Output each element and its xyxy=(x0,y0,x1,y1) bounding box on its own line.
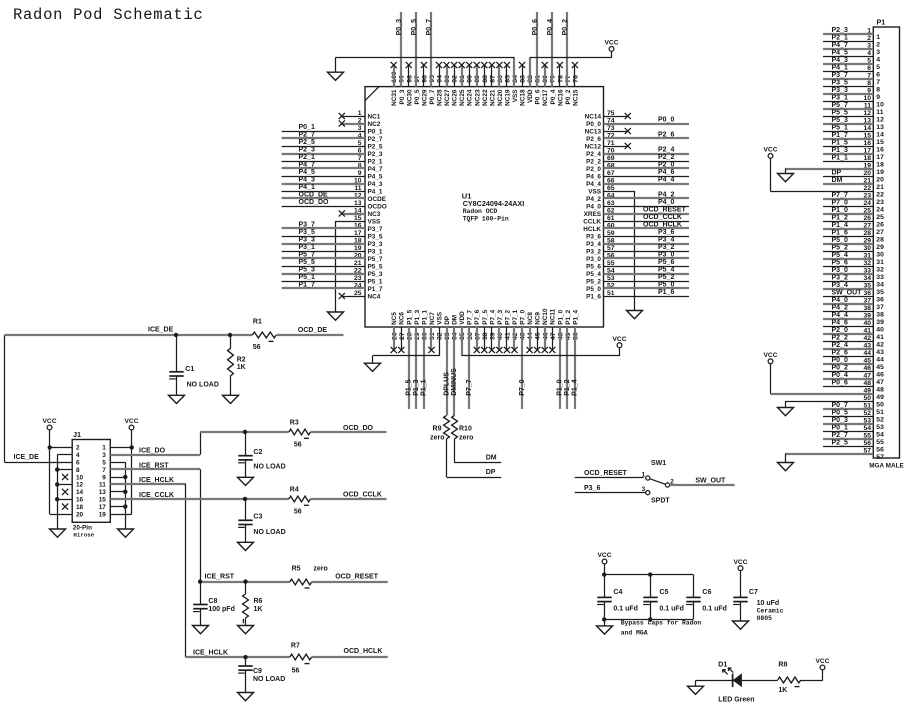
svg-text:P2_4: P2_4 xyxy=(586,151,601,158)
svg-text:34: 34 xyxy=(876,282,884,289)
svg-text:P7_0: P7_0 xyxy=(832,199,848,206)
U1 pin 25 (NC4) no-connect stub + X xyxy=(339,290,381,301)
P1 pin 6 wire + net label P4_1 xyxy=(823,64,880,78)
svg-text:NO LOAD: NO LOAD xyxy=(187,381,219,388)
svg-text:CCLK: CCLK xyxy=(583,218,601,225)
svg-text:P3_0: P3_0 xyxy=(586,256,601,263)
svg-text:56: 56 xyxy=(294,508,302,515)
svg-text:P7_0: P7_0 xyxy=(519,379,526,395)
U1 pin 6 (P2_3) wire + net label P2_3 xyxy=(282,147,383,158)
svg-text:P3_5: P3_5 xyxy=(832,79,848,86)
wire — ICE_DO riser up to OCD_DO row xyxy=(200,432,202,455)
svg-text:P3_3: P3_3 xyxy=(368,241,383,248)
label 1K (R8) xyxy=(778,687,787,694)
svg-text:P5_6: P5_6 xyxy=(586,263,601,270)
svg-text:R8: R8 xyxy=(778,662,787,669)
U1 pin 78 (NC16) no-connect stub + X xyxy=(557,62,565,106)
svg-text:P0_0: P0_0 xyxy=(586,121,601,128)
U1 pin 96 (NC29) no-connect stub + X xyxy=(421,62,429,106)
svg-text:P5_5: P5_5 xyxy=(832,109,848,116)
wire — OCD_RESET to SW1 pin 1 xyxy=(575,477,644,479)
P1 pin 39 wire + net label P4_4 xyxy=(823,312,884,326)
svg-text:P1_4: P1_4 xyxy=(832,222,848,229)
P1 pin 50 wire to ground xyxy=(785,395,884,409)
U1 pin 44 (NC8) no-connect stub + X xyxy=(527,312,535,354)
svg-text:SW_OUT: SW_OUT xyxy=(695,477,726,484)
svg-text:33: 33 xyxy=(876,274,884,281)
svg-text:Hirose: Hirose xyxy=(73,532,94,539)
P1 pin 5 wire + net label P4_3 xyxy=(823,57,880,71)
junction — C5 top xyxy=(648,572,652,576)
svg-text:3: 3 xyxy=(876,49,880,56)
capacitor C1 (NO LOAD) xyxy=(169,335,184,395)
svg-text:P0_0: P0_0 xyxy=(832,357,848,364)
svg-text:R2: R2 xyxy=(237,357,246,364)
U1 pin 14 (NC3) no-connect stub + X xyxy=(339,207,381,218)
P1 pin 38 wire + net label P4_2 xyxy=(823,304,884,318)
P1 reference designator label xyxy=(877,18,886,27)
svg-text:P4_3: P4_3 xyxy=(832,57,848,64)
wire — OCD_DE after R1 xyxy=(276,334,343,336)
svg-text:C7: C7 xyxy=(749,589,758,596)
wire — ground to D1 xyxy=(696,680,733,682)
svg-text:P5_7: P5_7 xyxy=(299,252,315,259)
svg-text:NC15: NC15 xyxy=(572,89,579,106)
J1 pin 8 number xyxy=(76,467,80,474)
U1 pin 81 (P0_6) wire up + net label P0_6 xyxy=(532,12,542,104)
svg-text:P7_0: P7_0 xyxy=(520,309,527,324)
U1 pin 30 (P1_1) wire down + net label P1_1 xyxy=(421,309,429,409)
svg-text:18: 18 xyxy=(876,162,884,169)
svg-text:P2_7: P2_7 xyxy=(299,132,315,139)
svg-text:39: 39 xyxy=(489,332,496,340)
svg-text:NC24: NC24 xyxy=(467,89,474,106)
svg-text:OCD_DO: OCD_DO xyxy=(343,425,374,432)
svg-text:HCLK: HCLK xyxy=(583,226,601,233)
svg-text:NC17: NC17 xyxy=(542,89,549,106)
junction — gnd at J1 pin 17 xyxy=(123,504,127,508)
svg-text:Bypass caps for Radon: Bypass caps for Radon xyxy=(621,620,702,627)
junction — R2 tap on ICE_DE xyxy=(228,333,232,337)
U1 pin 74 (P0_0) wire + net label P0_0 xyxy=(586,117,689,128)
svg-text:VDD: VDD xyxy=(459,311,466,325)
wire — J1 pin 4 stub xyxy=(57,454,72,456)
resistor R6 1K xyxy=(243,582,249,626)
svg-text:P3_2: P3_2 xyxy=(658,244,674,251)
svg-text:1: 1 xyxy=(876,34,880,41)
junction — gnd at J1 pin 13 xyxy=(123,490,127,494)
resistor R9 (zero) on DPLUS xyxy=(444,415,450,438)
svg-text:P0_3: P0_3 xyxy=(832,417,848,424)
wire — ICE_RST riser down xyxy=(200,469,202,581)
svg-text:P4_1: P4_1 xyxy=(299,184,315,191)
U1 pin 55 (P5_6) wire + net label P5_6 xyxy=(586,259,689,270)
svg-text:DP: DP xyxy=(832,169,842,176)
label C2 xyxy=(253,449,262,456)
svg-text:P5_1: P5_1 xyxy=(832,124,848,131)
P1 pin 23 wire + net label P7_7 xyxy=(823,192,884,206)
svg-text:P0_2: P0_2 xyxy=(565,89,572,104)
net label ICE_DE (at J1) xyxy=(14,454,40,461)
P1 pin 2 wire + net label P2_1 xyxy=(823,34,880,48)
svg-text:P2_2: P2_2 xyxy=(586,158,601,165)
svg-text:ICE_HCLK: ICE_HCLK xyxy=(193,649,228,656)
svg-text:P0_6: P0_6 xyxy=(535,89,542,104)
svg-text:P7_3: P7_3 xyxy=(497,309,504,324)
capacitor C9 (NO LOAD) xyxy=(238,657,253,692)
svg-text:VSS: VSS xyxy=(368,218,382,225)
svg-text:NC30: NC30 xyxy=(406,89,413,106)
label LED Green xyxy=(718,696,754,703)
svg-text:P4_4: P4_4 xyxy=(658,177,674,184)
U1 pin 79 (P0_4) wire up + net label P0_4 xyxy=(547,12,557,104)
net label ICE_RST (lower run) xyxy=(205,574,235,581)
U1 pin 68 (P2_0) wire + net label P2_0 xyxy=(586,162,689,173)
mark — R8 tolerance tick xyxy=(795,686,800,688)
svg-text:P1_3: P1_3 xyxy=(414,309,421,324)
svg-text:59: 59 xyxy=(607,230,615,237)
net label ICE_RST (at J1) xyxy=(139,462,169,469)
svg-text:1: 1 xyxy=(642,471,646,478)
wire — J1 pin 1 stub xyxy=(110,447,131,449)
svg-text:P3_6: P3_6 xyxy=(586,233,601,240)
P1 pin 28 wire + net label P1_6 xyxy=(823,229,884,243)
svg-text:P0_4: P0_4 xyxy=(550,89,557,104)
J1 pin 13 number xyxy=(99,489,107,496)
svg-text:15: 15 xyxy=(99,497,107,504)
ground — bottom-left VSS rail xyxy=(365,363,381,371)
svg-text:P2_7: P2_7 xyxy=(832,432,848,439)
junction — C9 tap xyxy=(243,655,247,659)
svg-text:3: 3 xyxy=(102,452,106,459)
U1 pin 97 (P0_5) wire up + net label P0_5 xyxy=(411,12,421,104)
svg-text:22: 22 xyxy=(876,192,884,199)
svg-text:P7_4: P7_4 xyxy=(489,309,496,324)
svg-text:XRES: XRES xyxy=(584,211,602,218)
svg-text:P3_3: P3_3 xyxy=(832,87,848,94)
svg-text:9: 9 xyxy=(102,474,106,481)
svg-text:VSS: VSS xyxy=(512,89,519,103)
U1 pin 42 (P7_1) no-connect stub + X xyxy=(511,309,519,353)
junction — C1 tap on ICE_DE xyxy=(174,333,178,337)
svg-text:NC5: NC5 xyxy=(391,312,398,325)
svg-text:39: 39 xyxy=(876,319,884,326)
label 10 uFd (C7) xyxy=(757,600,780,607)
ground — C7 xyxy=(733,621,749,629)
U1 pin 70 (P2_4) wire + net label P2_4 xyxy=(586,147,689,158)
svg-text:21: 21 xyxy=(354,260,362,267)
J1 pin 18 number xyxy=(76,504,84,511)
wire — J1 pin 17 stub xyxy=(110,506,125,508)
mark — R6 tick xyxy=(242,619,244,623)
label C4 xyxy=(613,589,622,596)
svg-text:67: 67 xyxy=(607,170,615,177)
svg-text:P3_5: P3_5 xyxy=(368,233,383,240)
svg-text:10: 10 xyxy=(876,102,884,109)
svg-text:R1: R1 xyxy=(253,319,262,326)
svg-text:P1_3: P1_3 xyxy=(832,147,848,154)
svg-text:19: 19 xyxy=(876,169,884,176)
U1 pin 94 (NC28) no-connect stub + X xyxy=(436,62,444,106)
P1 pin 54 wire + net label P0_1 xyxy=(823,424,884,438)
U1 pin 3 (P0_1) wire + net label P0_1 xyxy=(282,124,383,135)
svg-text:56: 56 xyxy=(253,344,261,351)
U1 pin 57 (P3_2) wire + net label P3_2 xyxy=(586,244,689,255)
svg-text:P3_1: P3_1 xyxy=(368,248,383,255)
U1 pin 75 (NC14) no-connect stub + X xyxy=(585,110,631,121)
svg-text:76: 76 xyxy=(572,75,579,83)
P1 pin 7 wire + net label P3_7 xyxy=(823,72,880,86)
svg-text:7: 7 xyxy=(102,467,106,474)
junction — VCC at J1 pin 2 xyxy=(48,445,52,449)
net label ICE_HCLK (lower run) xyxy=(193,649,228,656)
U1 pin 5 (P2_5) wire + net label P2_5 xyxy=(282,139,383,150)
P1 pin 11 wire + net label P5_7 xyxy=(823,102,884,116)
svg-text:41: 41 xyxy=(876,334,884,341)
svg-text:P3_6: P3_6 xyxy=(658,229,674,236)
svg-text:P4_0: P4_0 xyxy=(658,199,674,206)
wire — ICE_HCLK riser down xyxy=(185,484,187,658)
svg-text:1K: 1K xyxy=(237,364,246,371)
svg-text:63: 63 xyxy=(607,200,615,207)
svg-text:VCC: VCC xyxy=(764,352,778,359)
svg-text:P3_0: P3_0 xyxy=(832,267,848,274)
ground — C2 xyxy=(238,477,254,485)
svg-text:J1: J1 xyxy=(73,430,81,439)
resistor R7 56 xyxy=(290,654,312,660)
svg-text:53: 53 xyxy=(607,275,615,282)
svg-text:C3: C3 xyxy=(253,514,262,521)
svg-text:DP: DP xyxy=(486,469,496,476)
svg-text:43: 43 xyxy=(876,349,884,356)
svg-text:NC2: NC2 xyxy=(368,121,381,128)
P1 pin 13 wire + net label P5_3 xyxy=(823,117,884,131)
svg-text:P2_3: P2_3 xyxy=(832,27,848,34)
svg-text:P5_4: P5_4 xyxy=(832,252,848,259)
svg-text:77: 77 xyxy=(565,75,572,83)
label 1K (R2) xyxy=(237,364,246,371)
svg-text:zero: zero xyxy=(313,566,327,573)
svg-text:P4_0: P4_0 xyxy=(586,203,601,210)
svg-text:14: 14 xyxy=(876,132,884,139)
svg-text:15: 15 xyxy=(354,215,362,222)
svg-text:35: 35 xyxy=(876,289,884,296)
label R1 xyxy=(253,319,262,326)
svg-text:87: 87 xyxy=(489,75,496,83)
wire — J1 left ground vertical (pins 4,8,12,16) xyxy=(57,455,59,529)
svg-text:99: 99 xyxy=(399,75,406,83)
U1 pin 13 (OCDO) wire + net label OCD_DO xyxy=(282,199,387,210)
U1 pin 56 (P3_0) wire + net label P3_0 xyxy=(586,252,689,263)
svg-text:P0_7: P0_7 xyxy=(832,402,848,409)
label SW1 xyxy=(651,460,666,467)
svg-text:49: 49 xyxy=(876,394,884,401)
svg-text:P7_5: P7_5 xyxy=(482,309,489,324)
VCC symbol — bypass rail xyxy=(598,552,612,564)
P1 pin 16 wire + net label P1_5 xyxy=(823,139,884,153)
label R9 / zero xyxy=(430,426,444,442)
net label ICE_HCLK (at J1) xyxy=(139,477,174,484)
svg-text:P1_1: P1_1 xyxy=(421,309,428,324)
svg-text:DM: DM xyxy=(832,177,843,184)
svg-text:P2_1: P2_1 xyxy=(832,34,848,41)
svg-text:P3_4: P3_4 xyxy=(658,237,674,244)
label R8 xyxy=(778,662,787,669)
U1 pin 47 (NC11) no-connect stub + X xyxy=(549,308,557,353)
svg-text:NO LOAD: NO LOAD xyxy=(253,529,285,536)
svg-text:P3_4: P3_4 xyxy=(832,282,848,289)
mark — R3 tolerance tick xyxy=(304,437,309,439)
J1 pin 3 number xyxy=(102,452,106,459)
svg-text:P5_6: P5_6 xyxy=(832,259,848,266)
svg-text:55: 55 xyxy=(607,260,615,267)
U1 pin 85 (NC19) no-connect stub + X xyxy=(504,62,512,106)
svg-text:1K: 1K xyxy=(778,687,787,694)
svg-text:44: 44 xyxy=(876,357,884,364)
note text and MGA xyxy=(621,630,648,637)
svg-text:NC29: NC29 xyxy=(421,89,428,106)
svg-text:NC14: NC14 xyxy=(585,113,602,120)
svg-text:47: 47 xyxy=(550,332,557,340)
svg-text:VCC: VCC xyxy=(764,147,778,154)
J1 pin 12 number xyxy=(76,482,84,489)
U1 pin 77 (P0_2) wire up + net label P0_2 xyxy=(562,12,572,104)
svg-text:P4_3: P4_3 xyxy=(368,181,383,188)
P1 pin 29 wire + net label P5_0 xyxy=(823,237,884,251)
P1 pin 24 wire + net label P7_0 xyxy=(823,199,884,213)
svg-text:4: 4 xyxy=(876,57,880,64)
label C6 xyxy=(702,589,711,596)
P1 pin 9 wire + net label P3_3 xyxy=(823,87,880,101)
svg-text:VDD: VDD xyxy=(527,89,534,103)
capacitor C7 10 uFd xyxy=(733,571,748,621)
P1 pin 22 wire to VCC xyxy=(770,185,884,199)
svg-text:R5: R5 xyxy=(292,566,301,573)
net label OCD_CCLK xyxy=(343,491,382,498)
junction — R6 tap xyxy=(243,579,247,583)
P1 pin 57 wire to ground xyxy=(785,448,884,462)
svg-text:P1_5: P1_5 xyxy=(406,309,413,324)
net label P3_6 (SW1) xyxy=(584,485,600,492)
J1 pin 10 number xyxy=(76,474,84,481)
VCC symbol — P1 pin 22 xyxy=(764,147,778,192)
U1 pin 19 (P3_1) wire + net label P3_1 xyxy=(282,244,383,255)
svg-text:VCC: VCC xyxy=(598,552,612,559)
svg-text:P1_4: P1_4 xyxy=(572,309,579,324)
U1 pin 29 (P1_3) wire down + net label P1_3 xyxy=(413,309,421,409)
svg-text:OCD_DE: OCD_DE xyxy=(298,327,328,334)
label Ceramic (C7) xyxy=(757,607,784,614)
U1 pin 51 (P1_6) wire + net label P1_6 xyxy=(586,289,689,300)
svg-text:96: 96 xyxy=(421,75,428,83)
svg-text:13: 13 xyxy=(354,200,362,207)
svg-text:42: 42 xyxy=(876,342,884,349)
J1 pin 7 number xyxy=(102,467,106,474)
svg-text:55: 55 xyxy=(876,439,884,446)
U1 pin 4 (P2_7) wire + net label P2_7 xyxy=(282,132,383,143)
note text Bypass caps for Radon xyxy=(621,620,702,627)
svg-text:0.1 uFd: 0.1 uFd xyxy=(659,605,684,612)
capacitor C2 (NO LOAD) xyxy=(238,432,253,477)
capacitor C3 (NO LOAD) xyxy=(238,499,253,542)
U1 pin 32 (VSS) stub down xyxy=(437,311,444,356)
svg-text:38: 38 xyxy=(876,312,884,319)
U1 pin 87 (NC21) no-connect stub + X xyxy=(489,62,497,106)
wire — VSS pin 84 rail to ground (top left) xyxy=(336,57,515,72)
svg-text:69: 69 xyxy=(607,155,615,162)
svg-text:81: 81 xyxy=(535,75,542,83)
label 56 (R1) xyxy=(253,344,261,351)
junction — C8 tap xyxy=(198,579,202,583)
svg-text:P1_0: P1_0 xyxy=(557,379,564,395)
svg-text:56: 56 xyxy=(292,667,300,674)
P1 pin 51 wire + net label P0_7 xyxy=(823,402,884,416)
P1 pin 55 wire + net label P2_7 xyxy=(823,432,884,446)
net label OCD_DO xyxy=(343,425,374,432)
ground — D1 cathode xyxy=(688,680,704,694)
U1 pin 39 (P7_4) no-connect stub + X xyxy=(489,309,497,353)
svg-text:ICE_RST: ICE_RST xyxy=(205,574,235,581)
label C8 xyxy=(208,598,217,605)
junction — gnd at J1 pin 16 xyxy=(55,497,59,501)
svg-text:90: 90 xyxy=(467,75,474,83)
svg-text:OCD_DO: OCD_DO xyxy=(299,199,330,206)
svg-text:P7_7: P7_7 xyxy=(466,379,473,395)
svg-text:OCD_CCLK: OCD_CCLK xyxy=(643,214,682,221)
svg-text:P0_4: P0_4 xyxy=(832,372,848,379)
svg-text:NC16: NC16 xyxy=(557,89,564,106)
mark — R5 tolerance tick xyxy=(305,587,310,589)
wire — ICE_DO from J1 pin 3 xyxy=(110,454,200,456)
U1 pin 2 (NC2) no-connect stub + X xyxy=(339,117,381,128)
ground — P1 pin 57 xyxy=(778,454,794,471)
svg-text:P1: P1 xyxy=(877,18,886,27)
svg-text:57: 57 xyxy=(876,454,884,461)
P1 pin 44 wire + net label P2_6 xyxy=(823,349,884,363)
svg-text:MGA MALE: MGA MALE xyxy=(869,463,904,470)
svg-text:10: 10 xyxy=(76,474,84,481)
wire — bypass rail to ground xyxy=(604,619,606,626)
U1 pin 26 (NC5) no-connect stub + X xyxy=(391,312,399,354)
ground — R6 xyxy=(238,626,254,634)
svg-text:P5_0: P5_0 xyxy=(832,237,848,244)
P1 pin 33 wire + net label P3_0 xyxy=(823,267,884,281)
svg-text:P5_2: P5_2 xyxy=(658,274,674,281)
svg-text:19: 19 xyxy=(354,245,362,252)
svg-text:DP: DP xyxy=(444,315,451,325)
svg-text:P0_5: P0_5 xyxy=(411,19,418,35)
svg-text:OCDE: OCDE xyxy=(368,196,387,203)
svg-text:53: 53 xyxy=(876,424,884,431)
svg-text:10 uFd: 10 uFd xyxy=(757,600,780,607)
P1 pin 18 wire + net label P1_1 xyxy=(823,154,884,168)
ground — U1 pin 15 VSS xyxy=(328,312,344,320)
svg-text:47: 47 xyxy=(876,379,884,386)
mark — R1 tolerance tick xyxy=(269,340,274,342)
wire — ICE_HCLK row to R7 xyxy=(185,656,289,658)
svg-text:DM: DM xyxy=(452,315,459,325)
J1 pin 11 number xyxy=(99,482,106,489)
label R2 xyxy=(237,357,246,364)
label C9 xyxy=(253,668,262,675)
U1 pin 80 (NC17) no-connect stub + X xyxy=(542,62,550,106)
svg-text:P0_4: P0_4 xyxy=(547,19,554,35)
svg-text:25: 25 xyxy=(876,214,884,221)
svg-text:P1_2: P1_2 xyxy=(565,309,572,324)
svg-text:1: 1 xyxy=(102,445,106,452)
label NO LOAD (C3) xyxy=(253,529,285,536)
svg-text:DPLUS: DPLUS xyxy=(443,372,450,396)
